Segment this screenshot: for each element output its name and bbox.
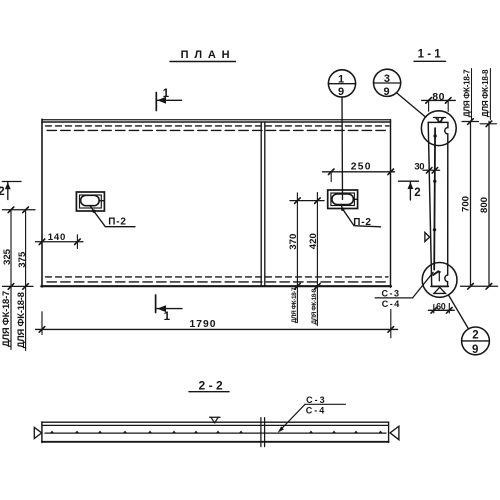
svg-text:С-4: С-4 [382, 299, 401, 309]
svg-text:325: 325 [2, 248, 13, 265]
wall head top edge [428, 121, 448, 123]
svg-text:80: 80 [432, 91, 445, 103]
support triangle 2-2 left [34, 427, 41, 438]
svg-text:ДЛЯ ФК-18-8: ДЛЯ ФК-18-8 [15, 292, 26, 348]
title 1-1 underline [414, 60, 446, 62]
svg-text:9: 9 [472, 344, 478, 356]
rebar dot 3 [433, 228, 436, 231]
svg-text:1790: 1790 [190, 319, 217, 330]
svg-text:П-2: П-2 [108, 217, 126, 228]
section 2-2 middle joint [260, 418, 262, 447]
dimension 250 [323, 162, 395, 182]
section 2-2 right edge [388, 422, 390, 443]
svg-text:9: 9 [338, 86, 344, 98]
middle dimension lines 370 420 [290, 193, 324, 326]
panel outline bottom edge [41, 285, 391, 287]
wall left edge [428, 122, 432, 286]
svg-text:ДЛЯ ФК-18-8: ДЛЯ ФК-18-8 [311, 288, 318, 324]
dimension 80 [422, 91, 456, 112]
svg-text:2: 2 [472, 329, 478, 341]
embedded plate P-2 right outer [328, 190, 358, 209]
dashed line bottom 1 [46, 276, 389, 278]
support triangle 2-2 right [390, 426, 399, 440]
svg-text:2: 2 [414, 187, 420, 199]
svg-text:С-3: С-3 [381, 288, 400, 298]
embedded plate P-2 right inner [331, 193, 355, 206]
vertical dimension 700 [462, 119, 479, 287]
svg-text:1: 1 [338, 74, 344, 86]
rebar ticks [50, 431, 383, 434]
svg-text:3: 3 [384, 73, 390, 85]
title PLAN [181, 49, 236, 61]
svg-text:800: 800 [479, 197, 490, 213]
rebar dot 2 [433, 180, 436, 183]
wall right edge with notches [445, 122, 448, 286]
svg-text:С-4: С-4 [306, 406, 327, 416]
svg-text:П-2: П-2 [353, 217, 371, 228]
svg-text:370: 370 [288, 234, 299, 250]
svg-text:700: 700 [460, 196, 471, 212]
svg-text:1-1: 1-1 [418, 48, 444, 60]
dimension 1790 [36, 310, 398, 338]
svg-text:9: 9 [384, 86, 390, 98]
dimension 60 [428, 301, 454, 313]
dimension 140 [36, 232, 84, 249]
panel middle joint line 1 [260, 122, 262, 286]
wall bottom edge [431, 285, 448, 287]
section 2-2 slab top edge [42, 421, 389, 423]
svg-text:1: 1 [164, 311, 171, 323]
head notch [437, 118, 439, 122]
svg-text:2: 2 [0, 186, 5, 198]
support triangle bottom [434, 287, 446, 293]
callout circle 3/9 [374, 69, 401, 98]
svg-text:ДЛЯ ФК-18-8: ДЛЯ ФК-18-8 [481, 69, 490, 117]
svg-text:ДЛЯ ФК-18-7: ДЛЯ ФК-18-7 [0, 291, 11, 347]
section mark 2 right [399, 181, 421, 200]
svg-text:30: 30 [414, 162, 424, 173]
panel outline right edge [390, 120, 392, 288]
svg-text:ДЛЯ ФК-18-7: ДЛЯ ФК-18-7 [291, 287, 298, 323]
title PLAN underline [170, 61, 236, 63]
section 2-2 left edge [41, 422, 43, 443]
callout circle 1/9 [328, 70, 355, 98]
vertical dimension 800 [480, 121, 497, 287]
svg-text:ПЛАН: ПЛАН [181, 49, 236, 61]
section mark 2 left [0, 182, 21, 200]
dimension 30 [414, 162, 439, 174]
panel outline top edge [42, 119, 391, 121]
title 2-2 underline [189, 391, 229, 393]
panel middle joint line 2 [264, 122, 266, 286]
detail circle top [421, 111, 456, 146]
svg-text:60: 60 [436, 301, 446, 311]
section 2-2 rebar line [45, 432, 386, 434]
dashed line top 1 [46, 125, 390, 127]
leader detail to circle 2/9 [448, 295, 468, 329]
section mark 1 bottom [156, 295, 182, 323]
leader from circle 3/9 to detail [396, 93, 425, 117]
weld mark triangle on wall [425, 233, 430, 242]
plate right anchor tick [353, 198, 357, 200]
dashed line bottom 2 [47, 281, 388, 283]
rebar dot 1 [433, 134, 436, 137]
level mark top [433, 118, 445, 122]
embedded plate P-2 left oval [81, 195, 100, 205]
left dimension lines 325 375 [3, 207, 36, 351]
svg-text:ДЛЯ ФК-18-7: ДЛЯ ФК-18-7 [462, 69, 471, 117]
label S-3 S-4 plan [375, 272, 433, 309]
svg-text:140: 140 [48, 232, 66, 243]
panel outline left edge [41, 119, 43, 287]
svg-text:250: 250 [351, 162, 372, 173]
leader from circle 1/9 to plate [341, 97, 344, 200]
svg-text:420: 420 [308, 233, 319, 249]
section mark 1 top [156, 88, 181, 111]
detail circle bottom [422, 263, 457, 298]
embedded plate P-2 right oval [332, 194, 354, 205]
plate left anchor tick [99, 200, 104, 202]
bottom tick line 700 800 [461, 284, 498, 290]
rebar hook [433, 270, 441, 281]
svg-text:375: 375 [17, 251, 28, 268]
label S-3 S-4 section 2-2 [278, 395, 346, 433]
rebar in wall [433, 128, 436, 269]
svg-text:1: 1 [163, 88, 170, 100]
embedded plate P-2 left outer [76, 192, 104, 211]
leader P-2 left [90, 206, 135, 227]
callout circle 2/9 [462, 327, 490, 356]
svg-text:2-2: 2-2 [199, 378, 227, 392]
dashed line top 2 [47, 129, 389, 131]
leader P-2 right [341, 205, 381, 227]
svg-text:С-3: С-3 [306, 395, 327, 405]
level mark 2-2 [210, 417, 221, 423]
section 2-2 slab bottom edge [42, 441, 389, 443]
embedded plate P-2 left inner [80, 195, 102, 208]
